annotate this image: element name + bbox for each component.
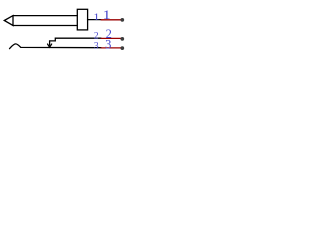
wire end dot 1 bbox=[120, 18, 124, 22]
pin 3 lead with tip contact bump bbox=[10, 44, 102, 49]
svg-text:3: 3 bbox=[94, 42, 99, 52]
audio jack connector body bbox=[4, 9, 101, 48]
pin 2 lead with switch jog bbox=[50, 38, 101, 45]
barrel top line bbox=[13, 15, 77, 17]
wire end dot 2 bbox=[120, 37, 124, 41]
svg-text:1: 1 bbox=[93, 12, 99, 22]
switch arrowhead bbox=[48, 44, 52, 47]
wire net 3 bbox=[101, 47, 121, 49]
plug tip bbox=[4, 16, 13, 26]
barrel bottom line bbox=[13, 25, 77, 27]
wire end dot 3 bbox=[120, 46, 124, 50]
svg-text:1: 1 bbox=[103, 8, 111, 22]
sleeve body rectangle bbox=[77, 9, 87, 30]
svg-text:3: 3 bbox=[105, 37, 111, 51]
wire net 1 bbox=[101, 19, 121, 21]
pin 1 lead bbox=[88, 19, 101, 21]
svg-text:2: 2 bbox=[94, 32, 99, 42]
wire net 2 bbox=[101, 37, 121, 39]
